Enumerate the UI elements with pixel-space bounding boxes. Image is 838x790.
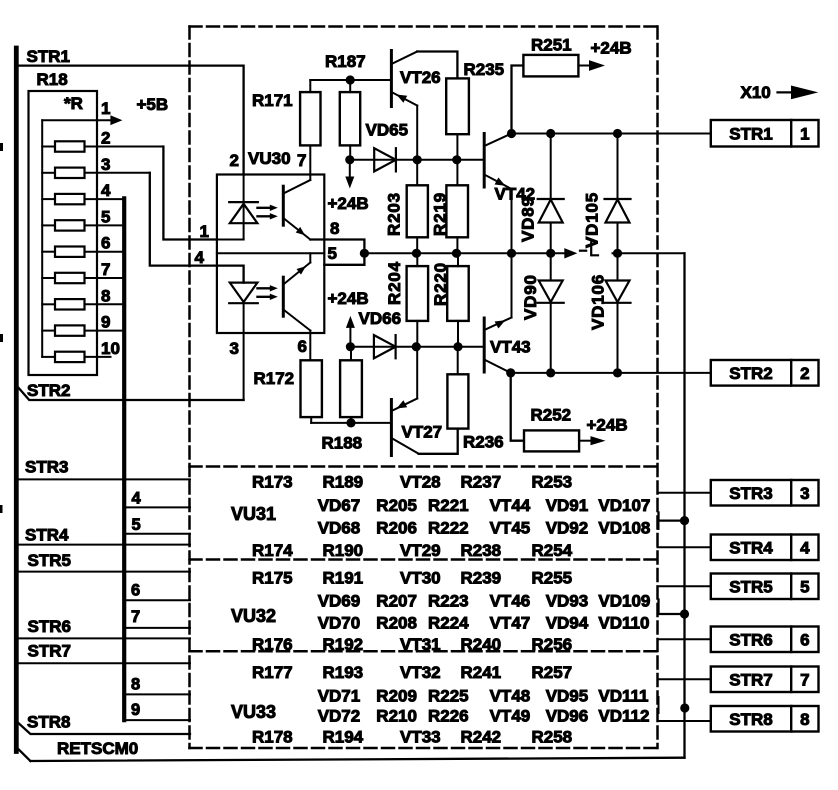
resistor R171	[300, 92, 320, 145]
svg-text:R190: R190	[323, 541, 364, 560]
svg-text:VD110: VD110	[598, 614, 649, 633]
wire common vertical right	[683, 253, 685, 757]
svg-text:1: 1	[200, 222, 209, 241]
dashed divider VU32 top	[190, 558, 658, 561]
svg-text:STR4: STR4	[25, 526, 69, 545]
junction VU31 common	[680, 516, 689, 525]
svg-text:VT29: VT29	[400, 541, 441, 560]
wire VU30 pin1 inside	[217, 239, 244, 241]
wire top rail STR1	[512, 133, 711, 135]
resistor R219	[446, 185, 468, 237]
svg-text:VU33: VU33	[231, 702, 276, 722]
resistor R204	[407, 266, 429, 321]
svg-text:VD105: VD105	[583, 192, 602, 248]
junction VD105 top	[613, 129, 622, 138]
svg-text:VD108: VD108	[598, 519, 650, 538]
svg-text:9: 9	[131, 701, 140, 719]
resistor R203	[407, 185, 428, 237]
svg-text:R203: R203	[385, 192, 404, 236]
svg-text:R221: R221	[428, 496, 469, 515]
svg-text:R206: R206	[376, 519, 417, 538]
svg-text:6: 6	[131, 582, 140, 600]
wire 7 line left	[126, 627, 190, 629]
wire R171-R187-VT26 base	[310, 79, 391, 81]
svg-text:VD92: VD92	[546, 519, 589, 538]
junction VD89-VD90	[546, 249, 555, 258]
svg-text:1: 1	[800, 124, 809, 143]
svg-text:R241: R241	[461, 663, 502, 682]
resistor R235	[446, 78, 469, 134]
junction R219 rail	[452, 249, 461, 258]
+24B down arrow	[349, 160, 351, 177]
junction VD66 left	[346, 342, 355, 351]
junction VD66 right	[412, 342, 421, 351]
svg-text:VT47: VT47	[490, 614, 531, 633]
junction VD65 right	[413, 155, 422, 164]
svg-text:R238: R238	[461, 541, 502, 560]
svg-text:R189: R189	[323, 473, 364, 492]
svg-text:VT49: VT49	[490, 707, 531, 726]
wire STR4 line right	[658, 546, 711, 548]
svg-text:STR1: STR1	[729, 124, 772, 143]
junction VD89 top	[546, 129, 555, 138]
svg-text:7: 7	[101, 260, 110, 279]
svg-text:7: 7	[131, 608, 140, 626]
svg-text:5: 5	[328, 244, 337, 263]
svg-text:VD94: VD94	[546, 614, 589, 633]
svg-text:VU31: VU31	[231, 504, 276, 524]
svg-text:VT28: VT28	[400, 473, 441, 492]
svg-text:R173: R173	[252, 473, 293, 492]
svg-text:10: 10	[101, 339, 120, 358]
bus left STR trunk	[14, 48, 19, 752]
wire R18 pin2 to VU30 pin1	[163, 147, 217, 240]
wire STR3 line right	[658, 492, 711, 494]
svg-text:STR7: STR7	[729, 670, 772, 689]
light arrows lower	[258, 287, 272, 289]
junction VD105-VD106	[613, 249, 622, 258]
svg-text:3: 3	[230, 339, 239, 358]
svg-text:6: 6	[800, 630, 809, 649]
optocoupler VU30 box	[217, 175, 324, 334]
svg-text:STR2: STR2	[27, 381, 70, 400]
svg-text:3: 3	[101, 155, 110, 174]
wire RETSCM0 hook	[19, 750, 31, 762]
svg-text:+24B: +24B	[328, 194, 369, 213]
wire VU30 pin4 inside	[217, 266, 244, 283]
svg-text:VT26: VT26	[400, 68, 441, 87]
svg-text:VD91: VD91	[546, 496, 589, 515]
junction VT42 collector	[507, 129, 516, 138]
light arrows upper	[258, 207, 272, 209]
svg-text:R192: R192	[323, 635, 364, 654]
wire VT43 emitter up	[511, 253, 513, 317]
junction R203 rail	[412, 249, 421, 258]
svg-text:RETSCM0: RETSCM0	[57, 739, 138, 758]
svg-text:R235: R235	[464, 60, 505, 79]
resistor R252	[524, 430, 579, 451]
svg-text:VT30: VT30	[400, 569, 441, 588]
wire STR5 line left	[19, 571, 190, 573]
svg-text:8: 8	[101, 286, 110, 305]
svg-text:R176: R176	[252, 635, 293, 654]
resistor R18 element pin2	[42, 146, 55, 148]
bracket VU31 common	[659, 513, 685, 521]
svg-text:VU30: VU30	[248, 149, 291, 168]
svg-text:VD112: VD112	[598, 707, 649, 726]
svg-text:VD90: VD90	[521, 274, 540, 320]
wire VU30 pin7	[309, 145, 311, 174]
R251 +24B arrow	[578, 65, 589, 67]
svg-text:VT43: VT43	[490, 338, 531, 357]
svg-text:VT33: VT33	[400, 728, 441, 747]
wire STR7 line right	[658, 678, 711, 680]
wire RETSCM0	[30, 758, 684, 761]
svg-text:VT31: VT31	[400, 635, 441, 654]
svg-text:R254: R254	[532, 541, 573, 560]
junction R235 bottom	[452, 155, 461, 164]
svg-text:R257: R257	[532, 663, 573, 682]
svg-text:R253: R253	[532, 473, 573, 492]
junction VT42-VT43 emitters	[507, 249, 516, 258]
wire 5 line left	[126, 533, 190, 535]
edge mark	[0, 334, 3, 342]
svg-text:VD96: VD96	[546, 707, 589, 726]
svg-text:STR3: STR3	[25, 458, 68, 477]
svg-text:4: 4	[800, 538, 810, 557]
svg-text:+24B: +24B	[587, 416, 628, 435]
svg-text:VU32: VU32	[231, 606, 276, 626]
phototransistor VU30 upper	[282, 186, 285, 225]
svg-text:VD65: VD65	[366, 121, 409, 140]
edge mark	[0, 143, 3, 151]
junction R220 bottom	[453, 342, 462, 351]
svg-text:R251: R251	[531, 36, 572, 55]
svg-text:R224: R224	[428, 614, 469, 633]
svg-text:R205: R205	[376, 496, 417, 515]
svg-text:STR1: STR1	[27, 47, 70, 66]
wire STR8 line left	[19, 723, 190, 734]
wire VD66 row	[350, 346, 458, 348]
svg-text:R188: R188	[322, 434, 363, 453]
dashed divider VU31 top	[190, 465, 658, 468]
rail arrow to common	[564, 248, 577, 258]
svg-text:9: 9	[101, 313, 110, 332]
svg-text:+24B: +24B	[328, 289, 369, 308]
diode VD65	[374, 148, 396, 171]
svg-text:8: 8	[800, 710, 809, 729]
wire 9 line left	[126, 719, 190, 721]
svg-text:STR4: STR4	[729, 538, 773, 557]
svg-text:R171: R171	[252, 91, 293, 110]
wire VT27 emitter to R236	[419, 429, 458, 454]
svg-text:+24B: +24B	[591, 39, 632, 58]
svg-text:VD109: VD109	[598, 592, 650, 611]
bracket VU32 common	[659, 600, 685, 615]
svg-text:R194: R194	[323, 728, 364, 747]
wire VU30 pin8 out	[310, 240, 364, 265]
svg-text:4: 4	[101, 181, 111, 200]
wire VT42 base	[457, 159, 484, 161]
wire STR6 line right	[658, 638, 711, 640]
bus R18 pins trunk	[122, 198, 126, 720]
junction VD106 bottom	[613, 368, 622, 377]
resistor R251	[523, 55, 578, 77]
wire R252 left	[511, 373, 524, 441]
svg-text:VD95: VD95	[546, 687, 589, 706]
svg-text:STR8: STR8	[27, 713, 70, 732]
phototransistor VU30 lower	[282, 277, 285, 316]
junction R188 bottom	[346, 418, 355, 427]
svg-text:R223: R223	[428, 592, 469, 611]
svg-text:VD93: VD93	[546, 592, 589, 611]
svg-text:R236: R236	[463, 433, 504, 452]
svg-text:VT44: VT44	[490, 496, 531, 515]
svg-text:VT32: VT32	[400, 663, 441, 682]
svg-text:R204: R204	[385, 261, 404, 305]
junction VD90 bottom	[546, 368, 555, 377]
svg-text:+5B: +5B	[137, 95, 169, 114]
svg-text:R256: R256	[532, 635, 573, 654]
wire 8 line left	[126, 693, 190, 695]
svg-text:R187: R187	[325, 52, 366, 71]
pin 1 +5B arrow	[42, 119, 111, 121]
bracket VU33 common	[658, 697, 660, 713]
svg-text:8: 8	[131, 676, 140, 694]
junction VT43 collector	[506, 368, 515, 377]
svg-text:VD68: VD68	[318, 519, 361, 538]
svg-text:2: 2	[101, 129, 110, 148]
svg-text:7: 7	[800, 670, 809, 689]
svg-text:R226: R226	[428, 707, 469, 726]
svg-text:1: 1	[101, 99, 110, 118]
connector X10 pin 4 (STR4)	[711, 535, 819, 561]
svg-text:R258: R258	[532, 728, 573, 747]
svg-text:R174: R174	[252, 541, 293, 560]
junction VU33 common	[680, 703, 689, 712]
connector X10 pin 7 (STR7)	[711, 667, 819, 693]
resistor R18 element pin9	[42, 330, 55, 332]
svg-text:VT45: VT45	[490, 519, 531, 538]
svg-text:VD111: VD111	[598, 687, 648, 706]
svg-text:X10: X10	[741, 83, 771, 102]
svg-text:8: 8	[330, 219, 339, 238]
svg-text:5: 5	[101, 207, 110, 226]
wire STR8 line right	[658, 720, 711, 722]
svg-text:R18: R18	[37, 70, 68, 89]
dashed enclosure box	[190, 25, 658, 28]
wire middle rail right	[613, 252, 685, 254]
wire R251 left	[512, 66, 524, 134]
wire VD65 row	[350, 159, 457, 161]
transistor VT26	[390, 51, 393, 107]
resistor R18 element pin10	[42, 356, 55, 358]
wire R18 pin3 to VU30 pin4	[150, 173, 217, 266]
wire STR7 line left	[19, 662, 190, 664]
svg-text:R209: R209	[376, 687, 417, 706]
resistor R18 element pin4	[42, 198, 55, 200]
wire VT27 base row	[311, 422, 391, 424]
resistor network R18 box	[29, 91, 98, 375]
svg-text:R242: R242	[461, 728, 502, 747]
transistor VT42	[483, 134, 486, 188]
svg-text:VD72: VD72	[318, 707, 361, 726]
svg-text:VD71: VD71	[318, 687, 361, 706]
wire VT26 emitter down	[416, 106, 418, 160]
svg-text:R175: R175	[252, 569, 293, 588]
svg-text:7: 7	[297, 151, 306, 170]
transistor VT27	[390, 400, 393, 456]
transistor VT43	[483, 318, 486, 372]
diode VD90	[550, 253, 552, 280]
wire VU30 pin6	[309, 333, 311, 360]
svg-text:2: 2	[230, 151, 239, 170]
wire STR1 to VU30 pin2	[19, 66, 244, 175]
connector X10 pin 1 (STR1)	[711, 120, 819, 147]
svg-text:VD107: VD107	[598, 496, 650, 515]
wire 4 line left	[126, 506, 190, 508]
resistor R187	[340, 92, 360, 145]
resistor R18 element pin5	[42, 224, 55, 226]
wire STR2	[19, 388, 244, 400]
svg-text:R222: R222	[428, 519, 469, 538]
LED VU30 upper	[243, 175, 245, 240]
wire STR6 line left	[19, 637, 190, 639]
junction R187 top	[346, 75, 355, 84]
R252 +24B arrow	[579, 440, 590, 442]
svg-text:5: 5	[800, 577, 809, 596]
svg-text:VT46: VT46	[490, 592, 531, 611]
svg-text:6: 6	[298, 337, 307, 356]
dashed divider VU33 top	[190, 650, 658, 653]
junction pin5-8	[360, 249, 369, 258]
svg-text:6: 6	[101, 234, 110, 253]
wire STR2 rail	[511, 372, 711, 374]
connector X10 pin 3 (STR3)	[711, 480, 819, 506]
junction VD65 left	[345, 155, 354, 164]
svg-text:STR5: STR5	[729, 577, 772, 596]
svg-text:R237: R237	[461, 473, 502, 492]
wire middle rail	[364, 252, 564, 254]
svg-text:VD70: VD70	[318, 614, 361, 633]
svg-text:STR8: STR8	[729, 710, 772, 729]
svg-text:R252: R252	[531, 406, 572, 425]
svg-text:STR7: STR7	[28, 642, 71, 661]
svg-text:R240: R240	[461, 635, 502, 654]
svg-text:VD69: VD69	[318, 592, 361, 611]
svg-text:VD66: VD66	[359, 309, 402, 328]
svg-text:STR5: STR5	[28, 551, 71, 570]
wire VT27 collector up	[416, 347, 418, 399]
svg-text:R208: R208	[376, 614, 417, 633]
wire VT42 emitter down	[511, 189, 513, 253]
diode VD89	[550, 134, 552, 200]
svg-text:R193: R193	[323, 663, 364, 682]
resistor R236	[447, 374, 468, 428]
common mark	[580, 250, 586, 252]
svg-text:STR3: STR3	[729, 484, 772, 503]
LED VU30 lower	[230, 283, 258, 302]
connector X10 pin 5 (STR5)	[711, 574, 819, 600]
connector X10 pin 8 (STR8)	[711, 706, 819, 732]
svg-text:VD89: VD89	[519, 196, 538, 242]
resistor R18 element pin7	[42, 277, 55, 279]
wire R18 common bus	[41, 120, 43, 357]
resistor R172	[301, 360, 322, 417]
svg-text:R239: R239	[461, 569, 502, 588]
wire 6 line left	[126, 599, 190, 601]
diode VD66	[374, 335, 396, 358]
junction VU32 common	[680, 609, 689, 618]
svg-text:VD67: VD67	[318, 496, 361, 515]
svg-text:STR2: STR2	[729, 364, 772, 383]
wire VT43 base	[458, 346, 484, 348]
svg-text:R177: R177	[252, 663, 293, 682]
X10 arrow	[778, 91, 793, 93]
svg-text:5: 5	[132, 516, 141, 534]
wire STR3 line left	[19, 478, 190, 480]
wire VU30 substrate line	[217, 252, 324, 254]
wire STR4 line left	[19, 544, 190, 546]
diode VD105	[617, 134, 619, 200]
svg-text:R207: R207	[376, 592, 417, 611]
svg-text:4: 4	[195, 248, 205, 267]
resistor R220	[447, 266, 469, 321]
resistor R18 element pin3	[42, 172, 55, 174]
svg-text:VT48: VT48	[490, 687, 531, 706]
connector X10 pin 2 (STR2)	[711, 360, 819, 386]
wire VT26 collector to R235	[417, 52, 457, 79]
svg-text:STR6: STR6	[28, 617, 71, 636]
resistor R188	[340, 360, 362, 417]
svg-text:VT27: VT27	[402, 423, 443, 442]
svg-text:2: 2	[800, 364, 809, 383]
svg-text:R255: R255	[532, 569, 573, 588]
svg-text:STR6: STR6	[729, 630, 772, 649]
svg-text:*R: *R	[64, 94, 83, 113]
wire STR5 line right	[658, 585, 711, 587]
svg-text:R172: R172	[254, 369, 295, 388]
connector X10 pin 6 (STR6)	[711, 627, 819, 653]
svg-text:R191: R191	[323, 569, 364, 588]
resistor R18 element pin8	[42, 303, 55, 305]
resistor R18 element pin6	[42, 251, 55, 253]
svg-text:4: 4	[132, 490, 142, 508]
svg-text:R225: R225	[428, 687, 469, 706]
svg-text:R210: R210	[376, 707, 417, 726]
diode VD106	[617, 253, 619, 280]
svg-text:R178: R178	[252, 728, 293, 747]
+24B up arrow lower	[346, 316, 355, 328]
svg-text:3: 3	[800, 484, 809, 503]
edge mark	[0, 505, 3, 513]
